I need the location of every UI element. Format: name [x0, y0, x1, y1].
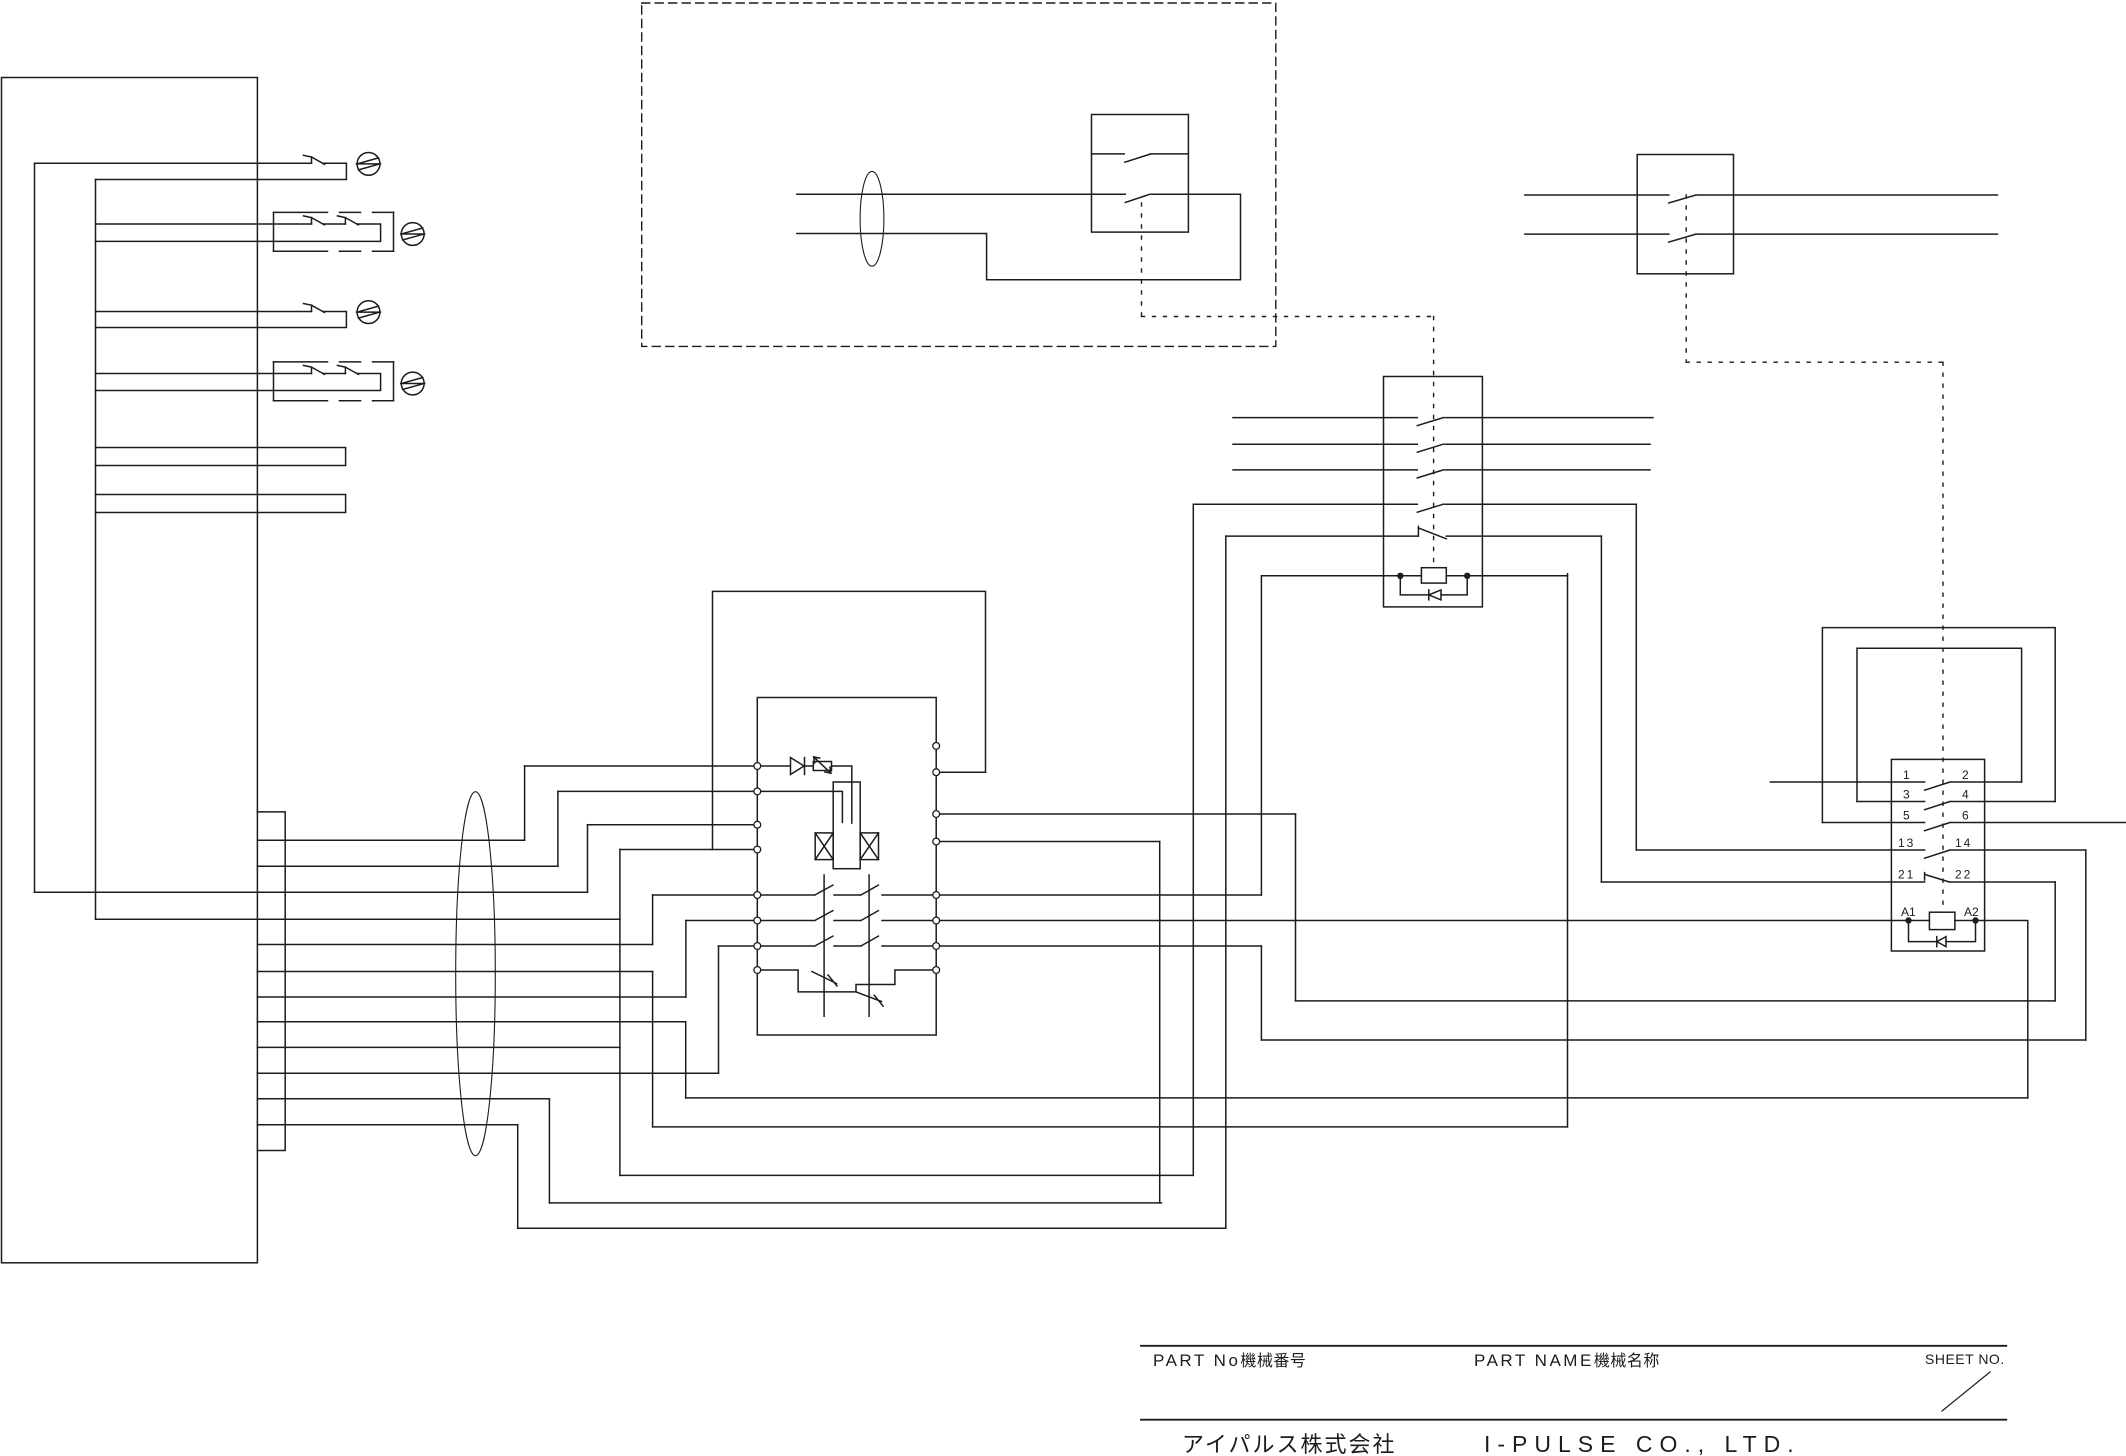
- limit switch LS2a: [304, 216, 325, 225]
- K3 row2 wire: [1857, 801, 1925, 803]
- linkage bar left: [823, 875, 825, 1016]
- K2 row2 stub left: [1233, 443, 1417, 445]
- wire loop K3 pin2 to pin3: [1857, 648, 2022, 801]
- pin circles right: [933, 743, 940, 974]
- staircase riser T8: [685, 1022, 687, 1098]
- K3 contact 5-6: [1925, 823, 2126, 831]
- dashed enclosure for LS2: [274, 212, 394, 251]
- wire loop4 mid: [323, 373, 345, 375]
- lamp PL2: [401, 223, 425, 246]
- wire common B (from V2): [96, 918, 620, 920]
- terminal rung wire T3: [257, 865, 558, 867]
- B2 contact2: [1669, 234, 1998, 242]
- dotted link across: [1142, 316, 1434, 318]
- drop relay A2: [2027, 922, 2029, 1098]
- drop K2 coil left: [1260, 576, 1262, 895]
- contact row6: [761, 911, 932, 921]
- limit switch LS1: [304, 155, 325, 164]
- K3 row1 stub: [1770, 781, 1924, 783]
- riser to pin2: [557, 791, 559, 866]
- lamp PL4: [401, 372, 425, 395]
- riser pin4 common: [619, 850, 621, 1176]
- wire pin4 lead: [620, 849, 753, 851]
- terminal rung wire T9: [257, 1046, 620, 1048]
- wire loop K3 pin4 to pin5: [1822, 628, 2055, 823]
- lamp PL3: [357, 301, 381, 324]
- drop K2 row4 to relay 13: [1635, 504, 1637, 850]
- bottom run to K2 NC: [518, 1227, 1226, 1229]
- wire pin2 to coil: [761, 791, 842, 822]
- drop pin4R: [1159, 842, 1161, 1203]
- K3 contact 13-14: [1925, 850, 2086, 858]
- terminal rung wire T11: [257, 1098, 549, 1100]
- K2 row4 wire: [1193, 503, 1417, 505]
- coil X-box right: [860, 833, 878, 860]
- K3 diode symbol: [1937, 937, 1946, 947]
- terminal rung wire T6: [257, 971, 652, 973]
- terminal rung wire T7: [257, 996, 686, 998]
- wire loop4 return: [96, 374, 381, 391]
- riser pin5 lower: [652, 972, 654, 1127]
- coil X-box left: [815, 833, 833, 860]
- wire loop1 return: [96, 163, 347, 179]
- K2 suppression diode loop: [1400, 576, 1467, 595]
- drop pin3R: [1295, 814, 1297, 1001]
- dotted link B2 across: [1686, 361, 1943, 363]
- B2 wire2: [1525, 233, 1669, 235]
- wire loop3 return: [96, 312, 347, 328]
- K2 coil body: [1421, 568, 1446, 583]
- contact row7: [761, 936, 932, 946]
- row8 blades: [812, 972, 883, 1007]
- svg-text:4: 4: [1962, 788, 1969, 802]
- K2 row4 contact: [1417, 504, 1636, 512]
- contact row5: [761, 885, 932, 895]
- svg-text:SHEET NO.: SHEET NO.: [1925, 1351, 2005, 1367]
- controller box U0 (left PLC enclosure): [2, 78, 258, 1263]
- contact row8 NC path: [761, 970, 932, 992]
- sheet slash: [1942, 1372, 1990, 1411]
- terminal rung wire T2: [257, 839, 524, 841]
- svg-text:21: 21: [1898, 868, 1915, 882]
- wire pin2 lead: [558, 790, 753, 792]
- dashed enclosure for LS4: [274, 362, 394, 401]
- aux contact box A: [1092, 115, 1189, 233]
- dotted link B2 down: [1685, 195, 1687, 362]
- relay K3 body: [1891, 759, 1984, 951]
- wire common A (from V1): [35, 891, 588, 893]
- drop K2 row4: [1192, 504, 1194, 1175]
- riser pin5 upper: [652, 895, 654, 945]
- wire top loop continues: [797, 194, 1241, 280]
- lamp PL1: [357, 153, 381, 176]
- svg-text:A2: A2: [1964, 905, 1979, 919]
- relay unit K1 inner box: [757, 698, 936, 1036]
- bottom run to pin4R: [549, 1202, 1161, 1204]
- top dashed enclosure: [642, 3, 1276, 346]
- drop K2 coil right: [1567, 574, 1569, 1127]
- svg-text:アイパルス株式会社: アイパルス株式会社: [1182, 1432, 1396, 1456]
- K2 row1 stub left: [1233, 417, 1417, 419]
- relay unit K1 outer box: [713, 591, 986, 849]
- solenoid coil K1 body: [833, 782, 860, 869]
- K2 row1 contact: [1417, 418, 1653, 426]
- diode D1: [761, 758, 804, 775]
- riser to pin1: [524, 766, 526, 840]
- riser to pin7: [718, 946, 720, 1073]
- riser to pin3: [587, 825, 589, 893]
- bottom run pin5 to K2 coil: [653, 1126, 1568, 1128]
- K3 coil body: [1929, 912, 1955, 929]
- wire pin5 lead: [653, 894, 754, 896]
- B2 contact1: [1669, 195, 1998, 203]
- staircase riser T11: [548, 1099, 550, 1203]
- svg-text:2: 2: [1962, 768, 1969, 782]
- title block bottom line: [1141, 1419, 2006, 1421]
- K2 NC contact: [1418, 526, 1601, 538]
- run pin3R to relay 22: [1296, 1000, 2056, 1002]
- bottom run to relay A2: [686, 1097, 2028, 1099]
- contact blade in box A row2: [1125, 194, 1150, 202]
- wire top loop upper: [797, 193, 1125, 195]
- wire pin4R run: [940, 841, 1159, 843]
- wire loop2 mid: [323, 223, 345, 225]
- wire pin7R run: [940, 945, 1261, 947]
- limit switch LS4a: [304, 365, 325, 374]
- svg-text:22: 22: [1955, 868, 1972, 882]
- riser relay22: [2054, 882, 2056, 1001]
- K2 coil wire left: [1261, 575, 1421, 577]
- wire pin1 lead: [525, 765, 754, 767]
- wire loop6: [96, 495, 346, 513]
- svg-text:6: 6: [1962, 809, 1969, 823]
- staircase riser T12: [517, 1125, 519, 1229]
- wire pin3R run: [940, 813, 1295, 815]
- wire pin2R to outer box: [940, 771, 985, 773]
- terminal rung wire T8: [257, 1021, 685, 1023]
- dotted link to K2 coil: [1433, 317, 1435, 568]
- wire pin3 lead: [588, 824, 754, 826]
- wire bus V1 from controller: [34, 163, 36, 892]
- svg-text:1: 1: [1903, 768, 1910, 782]
- wire loop1 top: [35, 162, 312, 164]
- limit switch LS2b: [337, 216, 358, 225]
- wire loop5: [96, 448, 346, 466]
- K2 NC row wire: [1226, 535, 1419, 537]
- varistor RV1: [805, 757, 832, 773]
- K3 contact 3-4: [1925, 802, 2056, 810]
- svg-text:PART No機械番号: PART No機械番号: [1153, 1351, 1306, 1370]
- riser relay14: [2085, 850, 2087, 1040]
- svg-text:13: 13: [1898, 836, 1915, 850]
- K3 coil junction dots: [1905, 917, 1911, 923]
- terminal rung wire T5: [257, 944, 652, 946]
- wire bus V2 from controller: [95, 180, 97, 920]
- K3 row3 wire: [1822, 822, 1924, 824]
- wire loop2 top: [96, 223, 312, 225]
- title block top line: [1141, 1345, 2006, 1347]
- dotted link box A down: [1141, 203, 1143, 317]
- wire pin6R to relay A1: [940, 920, 1908, 922]
- K2 row2 contact: [1417, 444, 1650, 452]
- K3 contact 1-2: [1925, 782, 2022, 790]
- wire loop3 top: [96, 311, 312, 313]
- svg-text:14: 14: [1955, 836, 1972, 850]
- K3 suppression diode loop: [1909, 921, 1976, 942]
- linkage bar right: [868, 875, 870, 1016]
- wire loop4 top: [96, 373, 312, 375]
- wire varistor to coil: [832, 766, 852, 823]
- pin circles left: [754, 763, 761, 974]
- K2 coil junction dots: [1397, 573, 1403, 579]
- terminal block TB1 column: [257, 812, 285, 1151]
- K2 row3 stub left: [1233, 469, 1417, 471]
- drop K2 NC: [1225, 536, 1227, 1228]
- cable marker ellipse E1: [456, 792, 496, 1156]
- dotted link to K3 coil: [1942, 362, 1944, 910]
- terminal rung wire T12: [257, 1124, 517, 1126]
- wire loop2 return: [96, 224, 381, 241]
- wire pin6 lead: [686, 920, 753, 922]
- svg-text:A1: A1: [1901, 905, 1916, 919]
- B2 wire1: [1525, 194, 1669, 196]
- wire pin5R run: [940, 894, 1261, 896]
- terminal rung wire T10: [257, 1072, 718, 1074]
- K3 coil wire segments: [1909, 920, 2028, 922]
- bottom run pin4 common: [620, 1174, 1193, 1176]
- svg-text:5: 5: [1903, 809, 1910, 823]
- K2 diode symbol: [1429, 590, 1441, 600]
- K3 row4 wire: [1636, 849, 1924, 851]
- svg-text:I-PULSE CO., LTD.: I-PULSE CO., LTD.: [1484, 1431, 1801, 1456]
- drop pin7R: [1260, 946, 1262, 1040]
- svg-text:PART NAME機械名称: PART NAME機械名称: [1474, 1351, 1660, 1370]
- K3 row5 NC wire: [1601, 881, 1924, 883]
- run pin7R to relay 14: [1261, 1039, 2085, 1041]
- svg-text:3: 3: [1903, 788, 1910, 802]
- relay K2 box: [1384, 377, 1483, 607]
- CT ellipse E2: [860, 171, 884, 266]
- limit switch LS3: [304, 304, 325, 313]
- box A row1 contact: [1092, 154, 1189, 162]
- switch box B2 (top right): [1637, 155, 1733, 274]
- K3 contact 21-22 NC: [1925, 873, 2056, 882]
- K2 row3 contact: [1417, 470, 1650, 478]
- K2 coil wire right: [1446, 575, 1567, 577]
- riser to pin6: [685, 921, 687, 998]
- limit switch LS4b: [337, 365, 358, 374]
- wire pin7 lead: [719, 945, 754, 947]
- drop K2 NC to relay 21: [1600, 536, 1602, 882]
